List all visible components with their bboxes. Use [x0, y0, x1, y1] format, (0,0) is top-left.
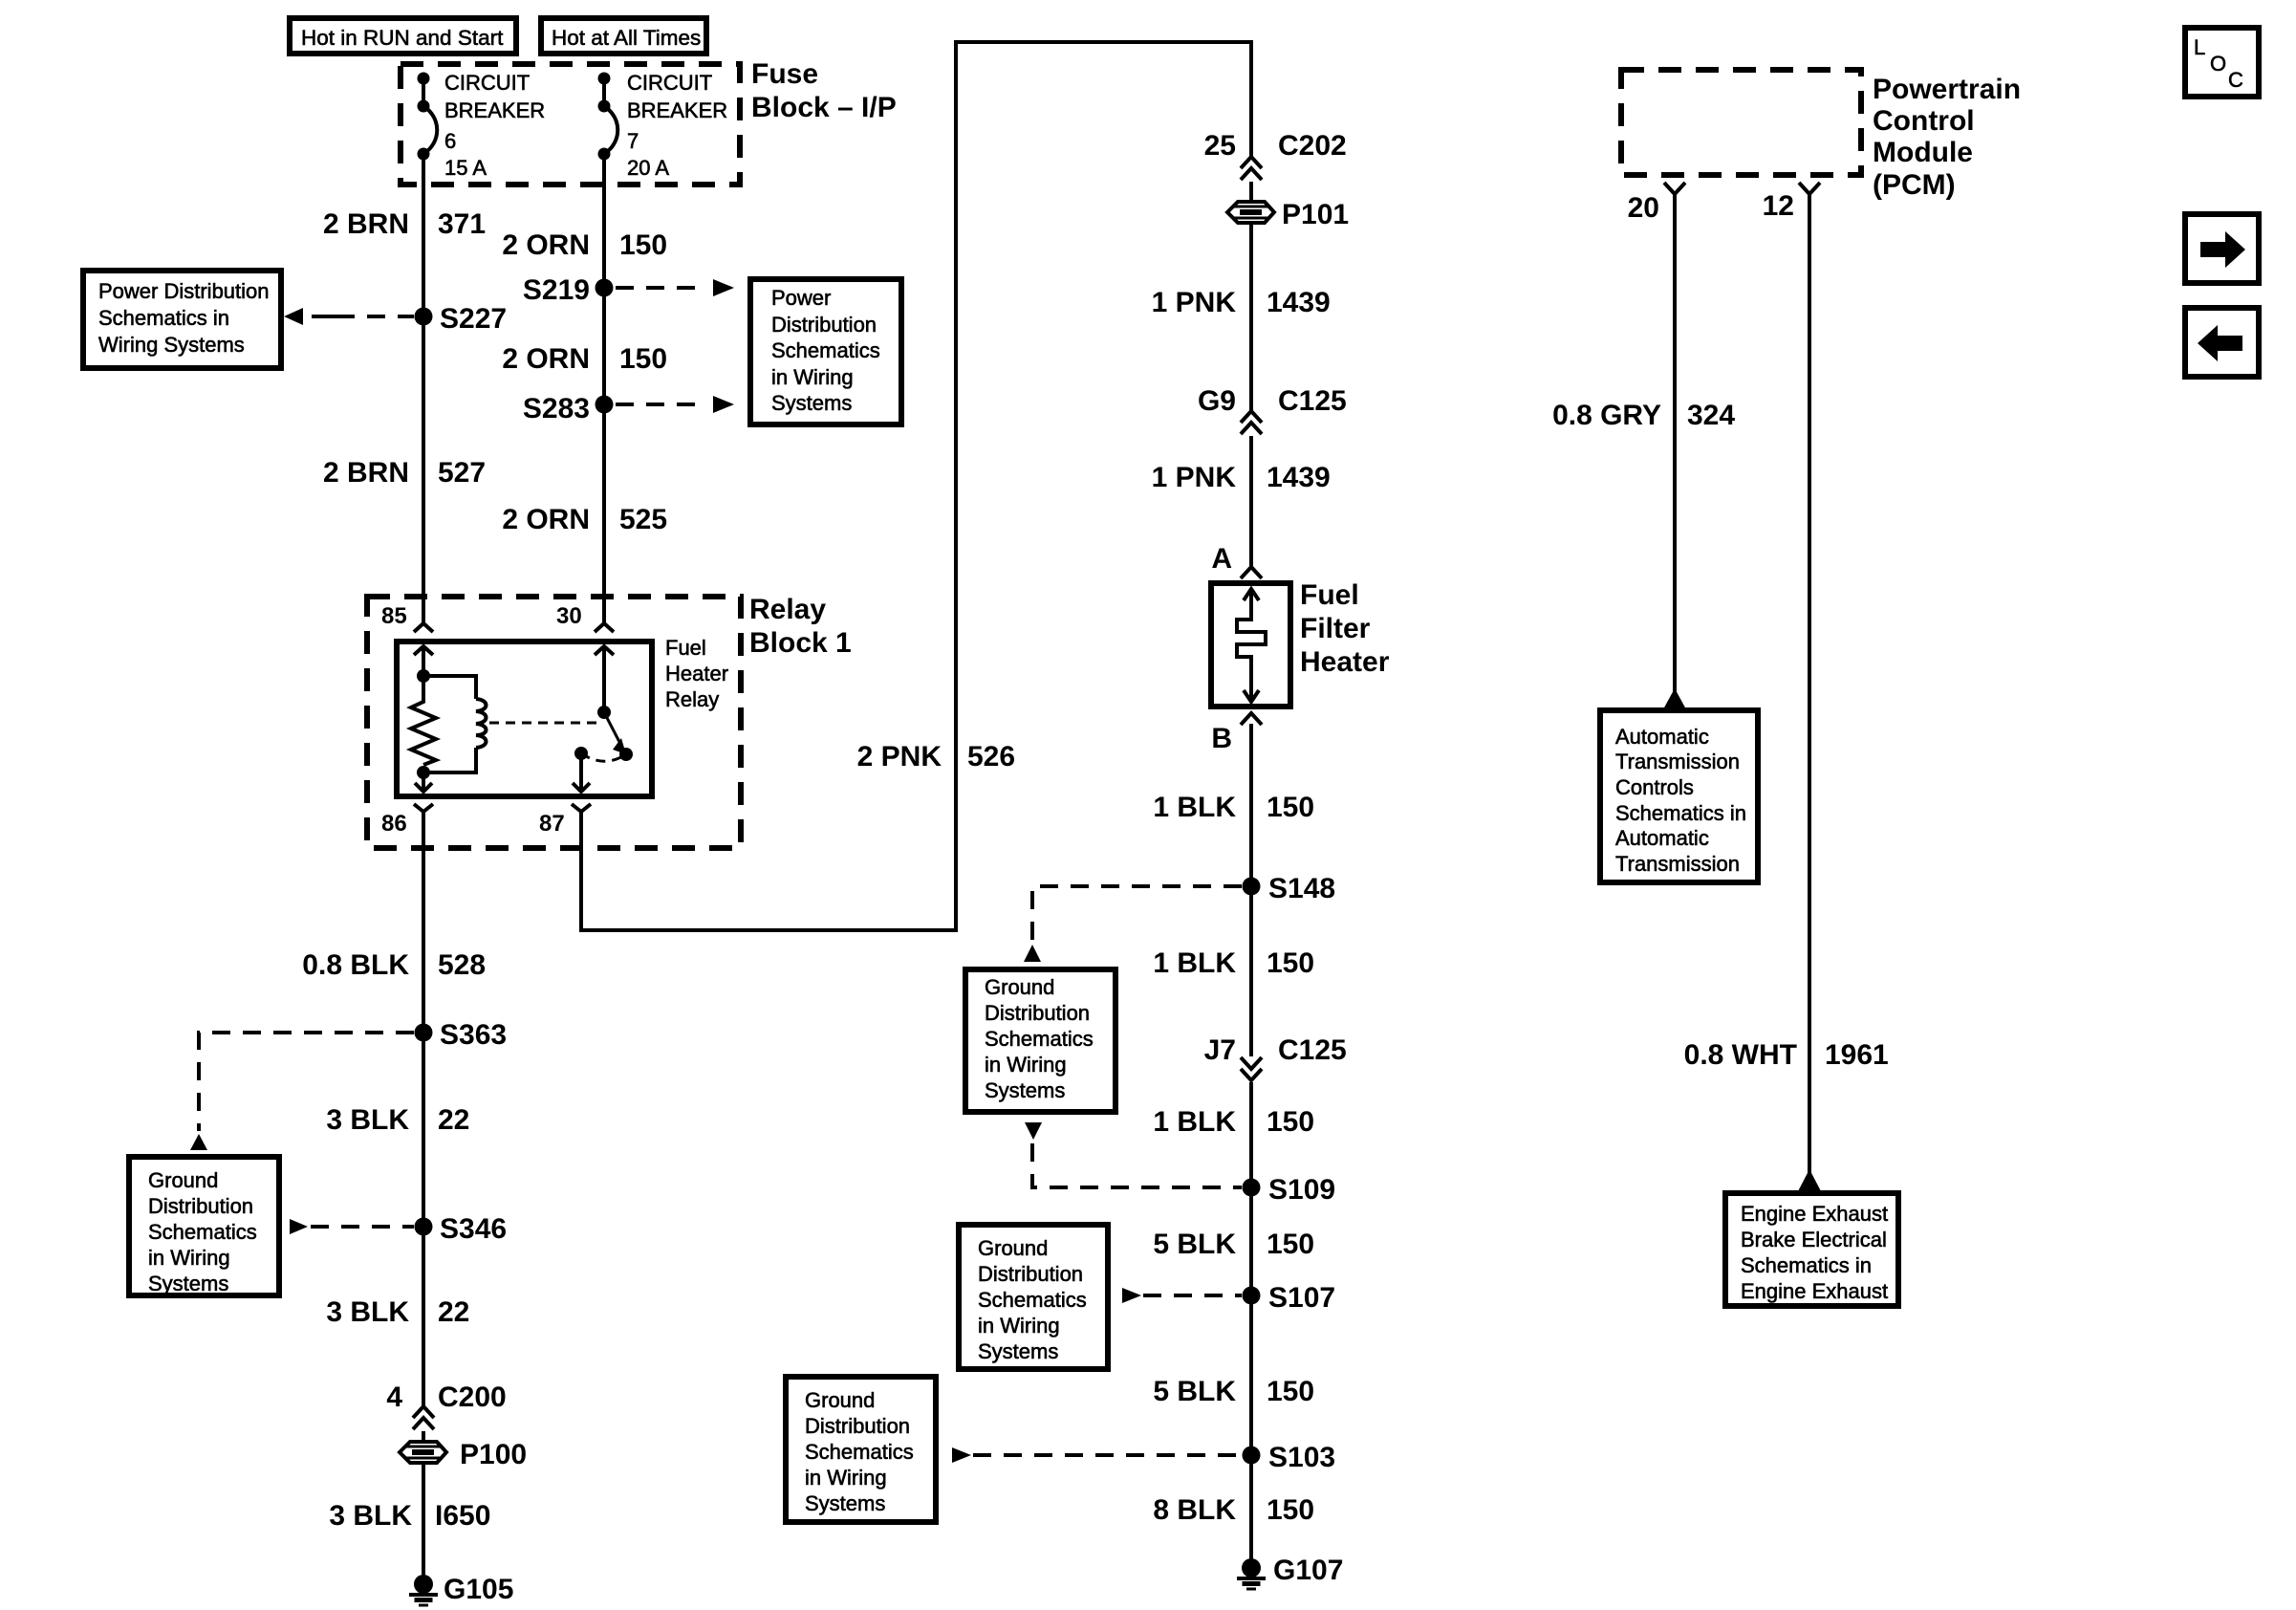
svg-text:Ground: Ground	[148, 1168, 218, 1192]
svg-text:Engine Exhaust: Engine Exhaust	[1741, 1279, 1888, 1303]
svg-text:S107: S107	[1268, 1282, 1335, 1314]
svg-text:4: 4	[386, 1382, 402, 1413]
svg-text:2 PNK: 2 PNK	[857, 741, 942, 772]
svg-text:3 BLK: 3 BLK	[326, 1296, 409, 1328]
svg-text:BREAKER: BREAKER	[627, 98, 727, 122]
svg-text:150: 150	[1267, 1229, 1314, 1260]
svg-text:Distribution: Distribution	[771, 313, 877, 337]
svg-text:S148: S148	[1268, 873, 1335, 904]
svg-text:Systems: Systems	[978, 1339, 1058, 1363]
svg-text:22: 22	[438, 1296, 469, 1328]
svg-text:Power Distribution: Power Distribution	[98, 279, 270, 303]
svg-text:Filter: Filter	[1300, 613, 1371, 644]
svg-text:150: 150	[1267, 1494, 1314, 1526]
svg-text:CIRCUIT: CIRCUIT	[444, 71, 530, 95]
svg-text:S103: S103	[1268, 1442, 1335, 1473]
svg-text:150: 150	[619, 343, 667, 375]
svg-text:1 PNK: 1 PNK	[1152, 462, 1237, 493]
svg-text:S363: S363	[440, 1019, 507, 1051]
svg-text:5 BLK: 5 BLK	[1153, 1229, 1236, 1260]
svg-text:20: 20	[1628, 192, 1659, 224]
svg-text:C202: C202	[1278, 130, 1347, 162]
svg-text:Systems: Systems	[985, 1078, 1065, 1102]
svg-text:Schematics: Schematics	[805, 1440, 914, 1464]
svg-text:C: C	[2228, 68, 2243, 92]
svg-text:Automatic: Automatic	[1615, 826, 1709, 850]
svg-text:in Wiring: in Wiring	[148, 1246, 230, 1270]
svg-text:Distribution: Distribution	[805, 1414, 910, 1438]
svg-text:Fuel: Fuel	[665, 636, 706, 660]
svg-text:7: 7	[627, 129, 639, 153]
svg-text:Schematics in: Schematics in	[98, 306, 229, 330]
svg-text:2 ORN: 2 ORN	[502, 343, 590, 375]
svg-text:527: 527	[438, 457, 486, 489]
svg-text:C200: C200	[438, 1382, 507, 1413]
svg-text:371: 371	[438, 208, 486, 240]
svg-text:2 BRN: 2 BRN	[323, 457, 409, 489]
svg-text:G105: G105	[444, 1574, 513, 1605]
svg-text:Ground: Ground	[805, 1388, 875, 1412]
svg-text:Controls: Controls	[1615, 775, 1694, 799]
svg-text:1 BLK: 1 BLK	[1153, 1106, 1236, 1138]
svg-text:Distribution: Distribution	[148, 1194, 253, 1218]
svg-text:150: 150	[1267, 792, 1314, 823]
svg-text:Systems: Systems	[771, 391, 852, 415]
svg-text:324: 324	[1687, 400, 1735, 431]
svg-text:Schematics: Schematics	[771, 338, 880, 362]
svg-text:3 BLK: 3 BLK	[326, 1104, 409, 1136]
svg-text:J7: J7	[1204, 1034, 1236, 1066]
svg-text:Hot in RUN and Start: Hot in RUN and Start	[301, 26, 504, 50]
svg-text:Systems: Systems	[148, 1272, 228, 1295]
svg-text:Systems: Systems	[805, 1491, 885, 1515]
svg-text:0.8 BLK: 0.8 BLK	[302, 949, 409, 981]
svg-text:Relay: Relay	[665, 687, 719, 711]
svg-text:150: 150	[1267, 1106, 1314, 1138]
svg-text:30: 30	[556, 603, 582, 629]
svg-text:Schematics: Schematics	[148, 1220, 257, 1244]
svg-text:P101: P101	[1282, 199, 1349, 230]
svg-text:Ground: Ground	[978, 1236, 1048, 1260]
svg-text:Fuse: Fuse	[751, 58, 818, 90]
svg-text:0.8 WHT: 0.8 WHT	[1684, 1039, 1797, 1071]
svg-text:Schematics in: Schematics in	[1615, 801, 1746, 825]
svg-text:150: 150	[1267, 947, 1314, 979]
svg-text:Distribution: Distribution	[985, 1001, 1090, 1025]
svg-text:Schematics in: Schematics in	[1741, 1253, 1872, 1277]
svg-text:22: 22	[438, 1104, 469, 1136]
svg-text:Block – I/P: Block – I/P	[751, 92, 897, 123]
svg-text:Automatic: Automatic	[1615, 725, 1709, 749]
svg-text:G107: G107	[1273, 1555, 1343, 1586]
svg-text:S109: S109	[1268, 1174, 1335, 1206]
svg-text:Transmission: Transmission	[1615, 750, 1740, 773]
svg-text:in Wiring: in Wiring	[771, 365, 854, 389]
svg-text:525: 525	[619, 504, 667, 535]
svg-text:Brake Electrical: Brake Electrical	[1741, 1228, 1887, 1251]
svg-text:25: 25	[1204, 130, 1236, 162]
svg-text:S219: S219	[523, 274, 590, 306]
svg-text:Distribution: Distribution	[978, 1262, 1083, 1286]
svg-text:Hot at All Times: Hot at All Times	[552, 26, 701, 50]
svg-text:in Wiring: in Wiring	[805, 1466, 887, 1490]
svg-text:Power: Power	[771, 286, 831, 310]
svg-text:87: 87	[539, 811, 565, 837]
svg-text:Block 1: Block 1	[749, 627, 852, 659]
svg-text:Fuel: Fuel	[1300, 579, 1359, 611]
svg-text:S346: S346	[440, 1213, 507, 1245]
svg-text:20 A: 20 A	[627, 156, 669, 180]
svg-text:I650: I650	[435, 1500, 490, 1532]
svg-text:CIRCUIT: CIRCUIT	[627, 71, 712, 95]
svg-text:L: L	[2194, 35, 2205, 59]
svg-text:G9: G9	[1198, 385, 1236, 417]
svg-text:B: B	[1211, 723, 1232, 754]
svg-text:(PCM): (PCM)	[1873, 169, 1956, 201]
svg-text:Schematics: Schematics	[978, 1288, 1087, 1312]
svg-text:Module: Module	[1873, 137, 1973, 168]
svg-text:Heater: Heater	[665, 662, 728, 685]
svg-text:3 BLK: 3 BLK	[329, 1500, 412, 1532]
svg-text:86: 86	[381, 811, 407, 837]
svg-text:150: 150	[619, 229, 667, 261]
svg-text:Heater: Heater	[1300, 646, 1390, 678]
svg-text:5 BLK: 5 BLK	[1153, 1376, 1236, 1407]
svg-text:12: 12	[1763, 190, 1794, 222]
svg-text:in Wiring: in Wiring	[985, 1053, 1067, 1077]
svg-text:Ground: Ground	[985, 975, 1054, 999]
svg-text:C125: C125	[1278, 1034, 1347, 1066]
svg-text:Transmission: Transmission	[1615, 852, 1740, 876]
svg-text:150: 150	[1267, 1376, 1314, 1407]
svg-text:A: A	[1211, 543, 1232, 575]
svg-text:P100: P100	[460, 1439, 527, 1470]
svg-text:Control: Control	[1873, 105, 1975, 137]
svg-text:O: O	[2210, 52, 2226, 76]
svg-text:C125: C125	[1278, 385, 1347, 417]
svg-text:Powertrain: Powertrain	[1873, 74, 2021, 105]
svg-text:15 A: 15 A	[444, 156, 487, 180]
svg-text:1 BLK: 1 BLK	[1153, 947, 1236, 979]
svg-text:2 BRN: 2 BRN	[323, 208, 409, 240]
svg-text:1439: 1439	[1267, 462, 1331, 493]
svg-text:526: 526	[967, 741, 1015, 772]
svg-text:0.8 GRY: 0.8 GRY	[1552, 400, 1661, 431]
svg-text:Engine Exhaust: Engine Exhaust	[1741, 1202, 1888, 1226]
svg-text:2 ORN: 2 ORN	[502, 229, 590, 261]
svg-text:1 BLK: 1 BLK	[1153, 792, 1236, 823]
svg-text:1961: 1961	[1825, 1039, 1889, 1071]
svg-text:in Wiring: in Wiring	[978, 1314, 1060, 1338]
svg-text:S227: S227	[440, 303, 507, 335]
svg-text:528: 528	[438, 949, 486, 981]
svg-text:8 BLK: 8 BLK	[1153, 1494, 1236, 1526]
svg-text:2 ORN: 2 ORN	[502, 504, 590, 535]
svg-text:Schematics: Schematics	[985, 1027, 1094, 1051]
svg-text:S283: S283	[523, 393, 590, 424]
svg-text:Wiring Systems: Wiring Systems	[98, 333, 245, 357]
svg-text:85: 85	[381, 603, 407, 629]
svg-text:Relay: Relay	[749, 594, 826, 625]
svg-text:BREAKER: BREAKER	[444, 98, 545, 122]
svg-text:6: 6	[444, 129, 456, 153]
svg-text:1 PNK: 1 PNK	[1152, 287, 1237, 318]
svg-text:1439: 1439	[1267, 287, 1331, 318]
